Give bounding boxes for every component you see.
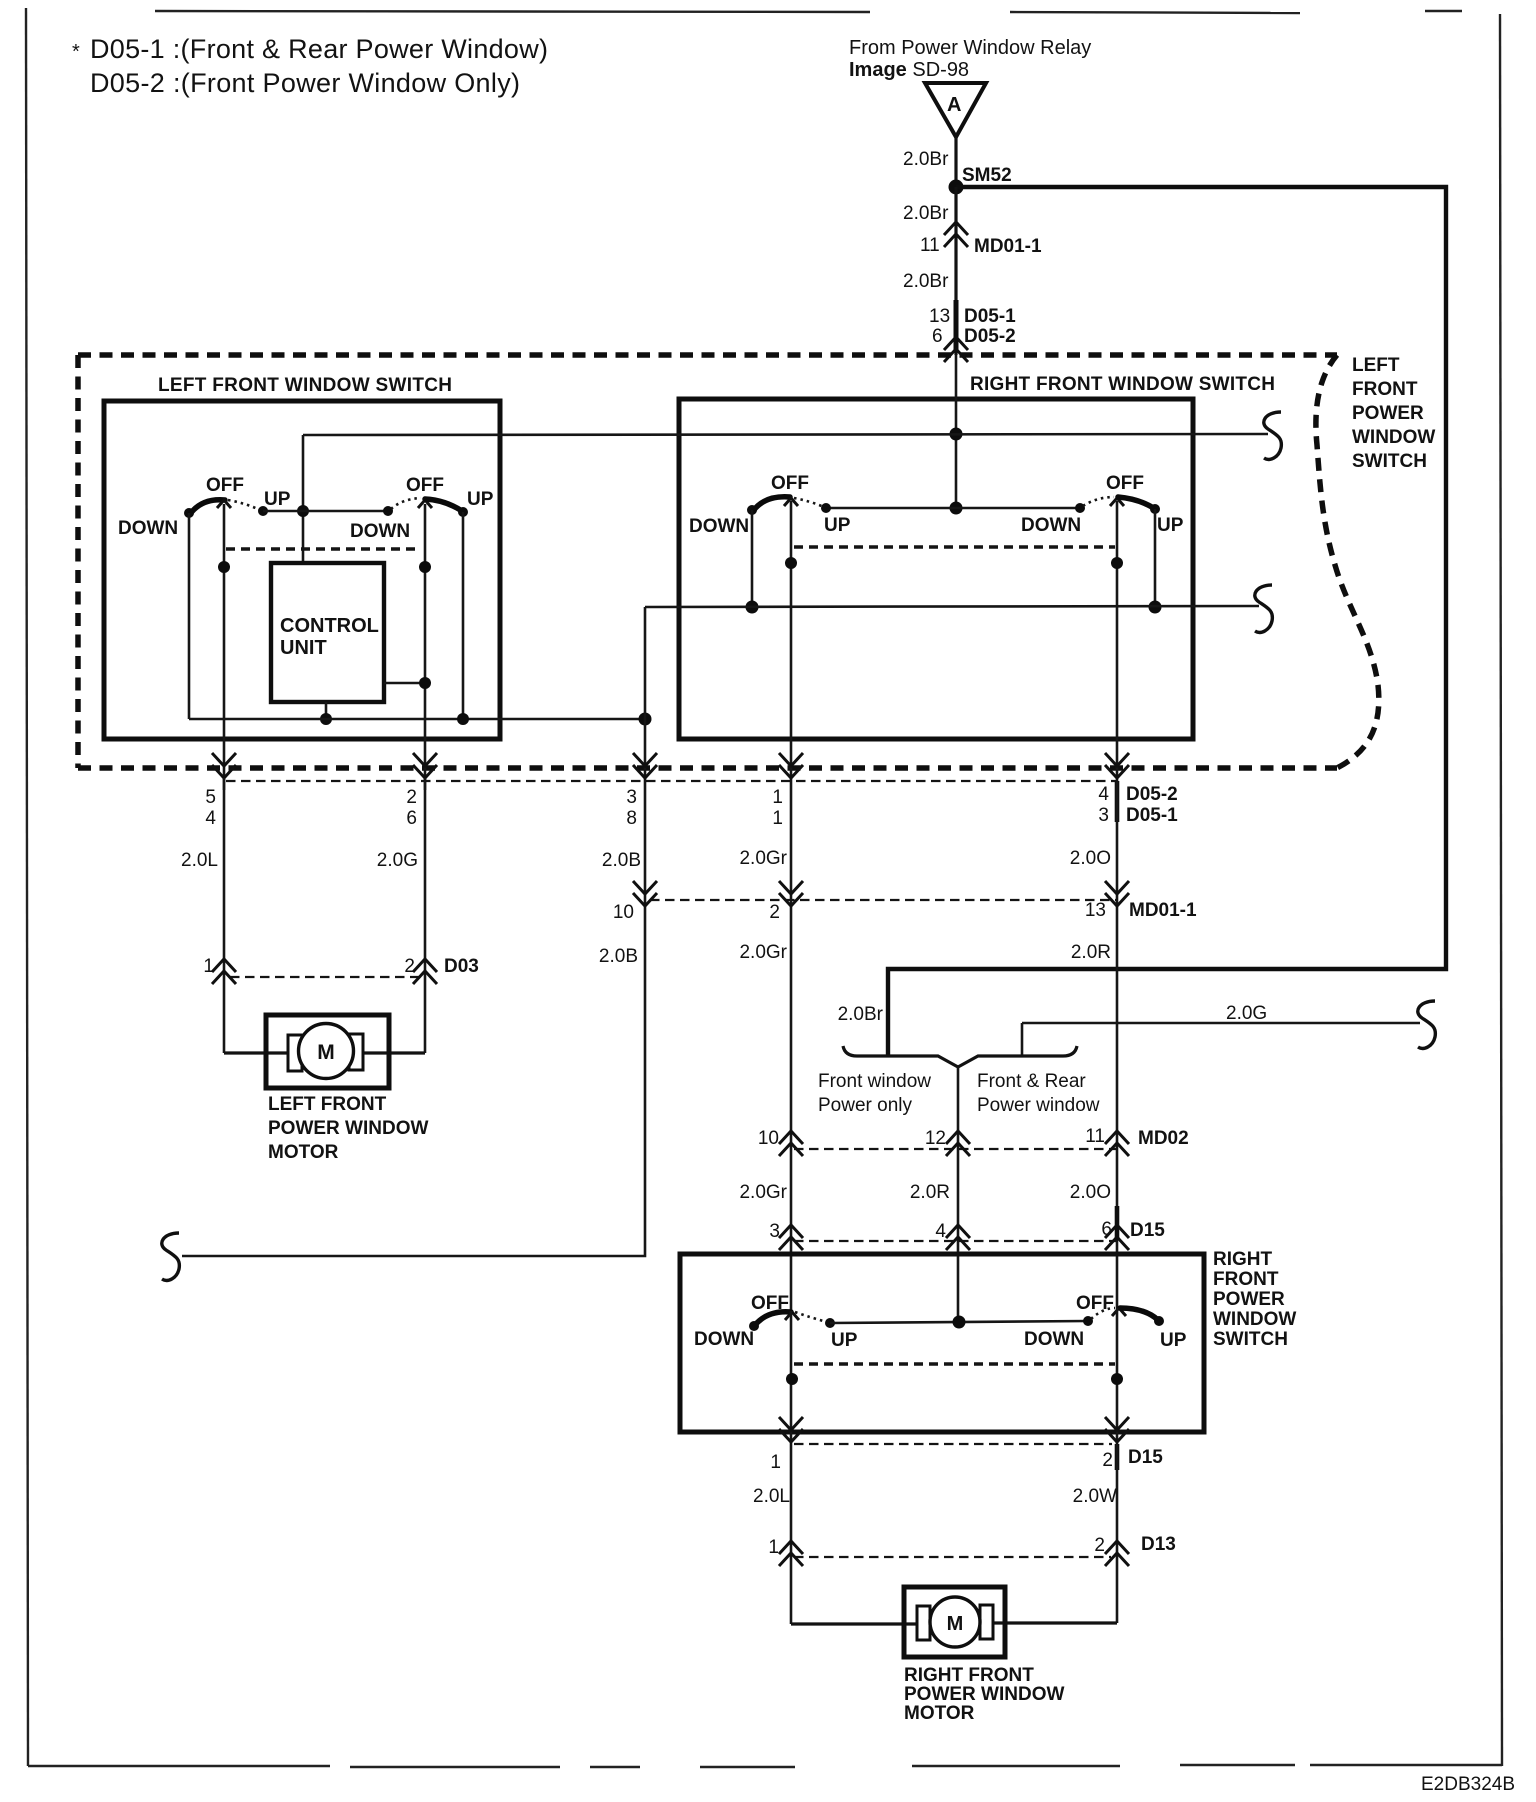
switch S3 dotted throw (OFF to UP) — [794, 498, 824, 507]
wire common horizontal S3 UP to S4 DOWN — [826, 507, 1080, 510]
switch S2 blade (OFF to UP) — [425, 499, 462, 511]
connector MD02 row dashed line — [794, 1148, 1118, 1150]
svg-text:D05-1: D05-1 — [1126, 805, 1178, 826]
svg-text:4: 4 — [1098, 784, 1109, 805]
svg-text:E2DB324B: E2DB324B — [1421, 1774, 1515, 1795]
node dot on S1 wiper wire — [218, 561, 230, 573]
switch S4 wiper arrow — [1110, 498, 1124, 506]
wire S1 wiper down to motor row — [223, 504, 226, 1053]
node center junction dot (pin 4 wire) — [953, 1316, 966, 1329]
chevron MD01-1 pin 10 — [633, 881, 657, 906]
wire 2.0O column down to lower box — [1116, 781, 1119, 1308]
wire from long wire down to switch common junction and control unit — [302, 435, 305, 563]
svg-text:UP: UP — [1160, 1330, 1187, 1351]
wire pin2 down continuation — [424, 778, 427, 790]
chevron exit pin 1 (D15 lower) — [779, 1417, 803, 1442]
switch S1 dotted throw (OFF to UP) — [228, 500, 260, 510]
svg-text:2.0G: 2.0G — [1226, 1003, 1267, 1024]
break squiggle at right end of long wire 2 — [1255, 585, 1273, 632]
svg-text:D05-1: D05-1 — [964, 306, 1016, 327]
connector MD01-1 row dashed line — [650, 899, 1118, 901]
svg-text:UP: UP — [467, 489, 494, 510]
svg-text:OFF: OFF — [406, 475, 444, 496]
svg-text:POWER WINDOW: POWER WINDOW — [268, 1118, 428, 1139]
svg-text:M: M — [947, 1613, 964, 1635]
wire feed into box down to bus junction — [955, 355, 958, 508]
chevron D15 pin 6 — [1105, 1225, 1129, 1250]
svg-text:2.0R: 2.0R — [910, 1182, 950, 1203]
chevron MD02 pin 10 — [779, 1131, 803, 1156]
svg-text:From Power Window Relay: From Power Window Relay — [849, 37, 1091, 59]
chevron D03 pin 2 — [413, 959, 437, 984]
wire 2.0B riser down to left squiggle wire — [182, 781, 645, 1256]
connector D15 lower row dashed line — [794, 1443, 1112, 1445]
dashed assembly box bottom edge — [78, 765, 1337, 771]
svg-text:SM52: SM52 — [962, 165, 1012, 186]
svg-text:UP: UP — [831, 1330, 858, 1351]
wire SM52 feed: right, down right side, left, down to bracket — [888, 187, 1446, 1056]
svg-text:MD02: MD02 — [1138, 1128, 1189, 1149]
node dot CU right pin — [419, 677, 431, 689]
chevron exit pin 4/3 — [1105, 753, 1129, 778]
node dot S3 DOWN on long wire 2 — [746, 601, 759, 614]
svg-text:8: 8 — [626, 808, 637, 829]
svg-text:10: 10 — [758, 1128, 779, 1149]
switch S2 DOWN contact dot — [383, 506, 393, 516]
wire S2 wiper down to motor row — [424, 504, 427, 1053]
connector bar D05 bottom — [1115, 781, 1120, 822]
svg-text:10: 10 — [613, 902, 634, 923]
switch S1 blade (DOWN to OFF) — [190, 500, 225, 514]
switch S2 wiper arrow — [418, 500, 432, 508]
break squiggle at left end — [162, 1233, 180, 1280]
svg-text:D13: D13 — [1141, 1534, 1176, 1555]
svg-text:POWER: POWER — [1352, 403, 1424, 424]
svg-text:OFF: OFF — [771, 473, 809, 494]
svg-text:OFF: OFF — [1076, 1293, 1114, 1314]
svg-text:POWER: POWER — [1213, 1289, 1285, 1310]
svg-text:D05-2: D05-2 — [1126, 784, 1178, 805]
svg-text:DOWN: DOWN — [1021, 515, 1081, 536]
svg-text:2.0R: 2.0R — [1071, 942, 1111, 963]
wire S3 wiper down (pin 1) — [790, 501, 793, 781]
switch S2 UP contact dot — [458, 507, 468, 517]
svg-text:WINDOW: WINDOW — [1352, 427, 1435, 448]
switch S4 UP contact dot — [1150, 504, 1160, 514]
dashed assembly box left edge — [75, 355, 81, 768]
page border top segments — [155, 11, 870, 12]
option bracket right (Front and Rear Power window) — [958, 1046, 1077, 1067]
right motor right brush — [980, 1605, 993, 1639]
long wire 1 across assembly — [303, 434, 1268, 435]
switch S3 wiper arrow — [784, 498, 798, 506]
chevron entering dashed switch assembly — [944, 337, 968, 362]
svg-text:2.0W: 2.0W — [1073, 1486, 1117, 1507]
wire S6 wiper down to exit — [1116, 1308, 1119, 1444]
switch S1 UP contact dot — [258, 506, 268, 516]
node junction on UP wire — [297, 505, 309, 517]
svg-text:UP: UP — [824, 515, 851, 536]
svg-text:2.0Gr: 2.0Gr — [739, 1182, 787, 1203]
node dot on long wire 1 — [950, 428, 963, 441]
svg-text:2.0L: 2.0L — [753, 1486, 790, 1507]
svg-text:MD01-1: MD01-1 — [1129, 900, 1197, 921]
node dot on S4 wiper wire — [1111, 557, 1123, 569]
page border left — [26, 8, 28, 1766]
node dot on S6 wiper wire — [1111, 1373, 1123, 1385]
switch S5 blade (pivot to DOWN) — [755, 1312, 791, 1325]
chevron D15 pin 3 — [779, 1225, 803, 1250]
node dot on S3 wiper wire — [785, 557, 797, 569]
svg-text:1: 1 — [772, 787, 783, 808]
switch S4 dotted throw (DOWN to OFF) — [1083, 497, 1114, 506]
svg-text:D15: D15 — [1130, 1220, 1165, 1241]
switch S5 dotted throw (pivot to UP) — [795, 1312, 827, 1322]
svg-text:Front window: Front window — [818, 1071, 931, 1092]
wire S4 wiper down (pin 4/3) — [1116, 501, 1119, 781]
svg-text:6: 6 — [932, 326, 943, 347]
svg-text:4: 4 — [205, 808, 216, 829]
chevron D03 pin 1 — [212, 959, 236, 984]
wire triangle to SM52 — [954, 137, 957, 187]
svg-text:RIGHT FRONT WINDOW SWITCH: RIGHT FRONT WINDOW SWITCH — [970, 374, 1275, 395]
svg-text:3: 3 — [769, 1221, 780, 1242]
chevron exit pin 2/6 — [413, 753, 437, 778]
node junction dot bus to pin 3/8 riser — [639, 713, 652, 726]
page border right — [1500, 14, 1502, 1766]
svg-text:2.0B: 2.0B — [602, 850, 641, 871]
wire S3 DOWN contact to long wire 2 — [751, 510, 754, 607]
motor left brush — [288, 1035, 302, 1071]
svg-text:FRONT: FRONT — [1213, 1269, 1279, 1290]
connector bar D15 top — [1115, 1206, 1120, 1240]
svg-text:*: * — [72, 41, 80, 63]
svg-text:2.0Gr: 2.0Gr — [739, 942, 787, 963]
svg-text:DOWN: DOWN — [694, 1329, 754, 1350]
wire junction to S2 DOWN contact — [303, 510, 388, 513]
switch S5 DOWN contact dot — [749, 1321, 759, 1331]
switch S6 UP contact dot — [1154, 1316, 1164, 1326]
svg-text:OFF: OFF — [751, 1293, 789, 1314]
chevron exit pin 3/8 — [633, 753, 657, 778]
wire S5 UP to center junction and S6 DOWN — [830, 1321, 1088, 1323]
svg-text:6: 6 — [1101, 1219, 1112, 1240]
wire pin 3/8 drop from bus — [644, 719, 647, 781]
svg-text:13: 13 — [1085, 900, 1106, 921]
svg-text:5: 5 — [205, 787, 216, 808]
wire control unit right pin to S2 wiper wire — [384, 682, 425, 685]
connector D05 row dashed line — [226, 780, 1118, 782]
switch S4 blade (OFF to UP) — [1118, 497, 1155, 509]
chevron exit pin 1/1 — [779, 753, 803, 778]
svg-text:MOTOR: MOTOR — [904, 1703, 975, 1724]
wire 2.0W drop to D13 — [1116, 1444, 1119, 1623]
wire pin2 to right motor right terminal — [992, 1621, 1117, 1624]
svg-text:D03: D03 — [444, 956, 479, 977]
svg-text:2: 2 — [1102, 1450, 1113, 1471]
connector bar D15 lower — [1115, 1444, 1120, 1470]
wire control unit bottom pin — [325, 702, 328, 719]
svg-text:4: 4 — [935, 1221, 946, 1242]
svg-text:M: M — [317, 1041, 335, 1064]
svg-text:CONTROL: CONTROL — [280, 615, 379, 637]
node dot S2 UP leg on bus — [457, 713, 469, 725]
svg-text:Front & Rear: Front & Rear — [977, 1071, 1086, 1092]
svg-text:POWER WINDOW: POWER WINDOW — [904, 1684, 1064, 1705]
node dot S4 UP on long wire 2 — [1149, 601, 1162, 614]
svg-text:13: 13 — [929, 306, 950, 327]
motor armature circle — [299, 1024, 354, 1079]
svg-text:UNIT: UNIT — [280, 637, 327, 659]
left front window switch box — [104, 401, 500, 739]
connector D03 row dashed line — [230, 976, 420, 978]
switch S2 dotted throw (DOWN to OFF) — [391, 498, 421, 509]
svg-text:2.0G: 2.0G — [377, 850, 418, 871]
svg-text:FRONT: FRONT — [1352, 379, 1418, 400]
dashed assembly box curved right boundary — [1316, 355, 1379, 768]
svg-text:DOWN: DOWN — [1024, 1329, 1084, 1350]
right motor armature circle — [930, 1597, 980, 1647]
switch S3 UP contact dot — [821, 503, 831, 513]
svg-text:UP: UP — [264, 489, 291, 510]
svg-text:LEFT: LEFT — [1352, 355, 1400, 376]
switch S1 wiper arrow — [217, 500, 231, 508]
svg-text:DOWN: DOWN — [118, 518, 178, 539]
svg-text:SWITCH: SWITCH — [1352, 451, 1427, 472]
svg-text:RIGHT: RIGHT — [1213, 1249, 1273, 1270]
svg-text:6: 6 — [406, 808, 417, 829]
dashed assembly box top edge — [78, 352, 1337, 358]
connector D13 row dashed line — [794, 1556, 1111, 1558]
node dot CU bottom pin on ground bus — [320, 713, 332, 725]
svg-text:2.0O: 2.0O — [1070, 1182, 1111, 1203]
svg-text:1: 1 — [772, 808, 783, 829]
wire inner bottom bus — [189, 718, 645, 721]
wire 2.0G from squiggle to bracket — [1022, 1022, 1420, 1025]
wire riser from bus up to long wire 2 corner — [644, 607, 647, 719]
connector D15 row dashed line — [794, 1240, 1118, 1242]
off-page connector triangle A — [925, 83, 986, 137]
chevron exit pin 2 (D15 lower) — [1105, 1417, 1129, 1442]
svg-text:DOWN: DOWN — [689, 516, 749, 537]
svg-text:2.0Br: 2.0Br — [903, 149, 949, 170]
svg-text:1: 1 — [770, 1452, 781, 1473]
switch S3 DOWN contact dot — [747, 505, 757, 515]
svg-text:SWITCH: SWITCH — [1213, 1329, 1288, 1350]
svg-text:2: 2 — [406, 787, 417, 808]
wire pin1 to motor left terminal — [224, 1051, 292, 1054]
wire S1 UP contact to junction — [263, 510, 303, 513]
right front window switch box — [679, 399, 1193, 739]
wire SM52 to MD01-1 — [954, 187, 957, 355]
svg-text:3: 3 — [626, 787, 637, 808]
svg-text:LEFT FRONT WINDOW SWITCH: LEFT FRONT WINDOW SWITCH — [158, 375, 452, 396]
chevron MD02 pin 11 — [1105, 1131, 1129, 1156]
svg-text:2: 2 — [1094, 1535, 1105, 1556]
svg-text:Power window: Power window — [977, 1095, 1100, 1116]
svg-text:2.0Br: 2.0Br — [903, 271, 949, 292]
svg-text:2.0Gr: 2.0Gr — [739, 848, 787, 869]
svg-text:MOTOR: MOTOR — [268, 1142, 339, 1163]
chevron MD01-1 pin 2 — [779, 881, 803, 906]
wire bracket junction down to MD02 pin 12 — [957, 1067, 960, 1322]
wire pin2 to motor right terminal — [360, 1051, 425, 1054]
right front power window switch box — [680, 1254, 1204, 1432]
svg-text:1: 1 — [203, 956, 214, 977]
node dot on S5 wiper wire — [786, 1373, 798, 1385]
switch S3 blade (DOWN to OFF) — [753, 497, 790, 511]
chevron D15 pin 4 — [946, 1225, 970, 1250]
switch S5 wiper arrow — [785, 1312, 799, 1320]
switch S6 blade (pivot to UP) — [1120, 1308, 1158, 1320]
svg-text:2.0Br: 2.0Br — [838, 1004, 884, 1025]
svg-text:MD01-1: MD01-1 — [974, 236, 1042, 257]
connector bar D05 at top — [954, 300, 959, 352]
right front power window motor box — [904, 1587, 1005, 1657]
svg-text:Power only: Power only — [818, 1095, 912, 1116]
switch S6 dotted throw (DOWN to pivot) — [1091, 1308, 1115, 1319]
break squiggle at right end of long wire 1 — [1264, 412, 1282, 459]
switch S4 DOWN contact dot — [1075, 503, 1085, 513]
mechanical link dashed line S3-S4 — [794, 545, 1115, 548]
long wire 2 across assembly — [645, 606, 1259, 607]
chevron MD02 pin 12 — [946, 1131, 970, 1156]
svg-text:OFF: OFF — [206, 475, 244, 496]
mechanical link dashed line S1-S2 — [226, 547, 420, 550]
svg-text:Image SD-98: Image SD-98 — [849, 59, 969, 81]
control unit box — [271, 563, 384, 702]
svg-text:RIGHT FRONT: RIGHT FRONT — [904, 1665, 1034, 1686]
page border bottom segments — [28, 1765, 330, 1767]
wire pin1 to right motor left terminal — [791, 1622, 920, 1625]
svg-text:OFF: OFF — [1106, 473, 1144, 494]
svg-text:12: 12 — [925, 1128, 946, 1149]
node dot on S2 wiper wire — [419, 561, 431, 573]
wire S1 DOWN contact down leg — [188, 513, 191, 719]
chevron MD01-1 pin 13 — [1105, 881, 1129, 906]
switch S6 wiper arrow — [1112, 1308, 1126, 1316]
svg-text:2.0L: 2.0L — [181, 850, 218, 871]
wire S4 UP contact to long wire 2 — [1154, 509, 1157, 607]
connector MD01-1 pin 11 chevron — [944, 222, 968, 247]
svg-text:2.0O: 2.0O — [1070, 848, 1111, 869]
svg-text:DOWN: DOWN — [350, 521, 410, 542]
node SM52 junction dot — [949, 180, 964, 195]
node dot on switch common wire — [950, 502, 963, 515]
break squiggle 2.0G right end — [1418, 1001, 1436, 1048]
wire 2.0Gr column down to MD02 — [790, 781, 793, 1311]
svg-text:2.0Br: 2.0Br — [903, 203, 949, 224]
svg-text:11: 11 — [1085, 1126, 1105, 1147]
chevron D13 pin 2 — [1105, 1541, 1129, 1566]
svg-text:D05-1 :(Front & Rear Power Win: D05-1 :(Front & Rear Power Window) — [90, 34, 548, 64]
svg-text:WINDOW: WINDOW — [1213, 1309, 1296, 1330]
wire pin5 down continuation — [223, 778, 226, 790]
svg-text:D05-2 :(Front Power Window Onl: D05-2 :(Front Power Window Only) — [90, 68, 520, 98]
svg-text:2: 2 — [404, 956, 415, 977]
chevron exit pin 5/4 — [212, 753, 236, 778]
wire 2.0L drop to D13 — [790, 1444, 793, 1624]
switch S5 UP contact dot — [825, 1318, 835, 1328]
svg-text:D15: D15 — [1128, 1447, 1163, 1468]
wire S2 UP contact down leg — [462, 512, 465, 719]
chevron D13 pin 1 — [779, 1541, 803, 1566]
svg-text:2: 2 — [769, 902, 780, 923]
svg-text:LEFT FRONT: LEFT FRONT — [268, 1094, 387, 1115]
right motor left brush — [917, 1606, 930, 1640]
svg-text:11: 11 — [920, 235, 940, 256]
svg-text:3: 3 — [1098, 805, 1109, 826]
motor right brush — [349, 1034, 363, 1070]
mechanical link dashed line S5-S6 — [794, 1362, 1115, 1365]
switch S6 DOWN contact dot — [1083, 1316, 1093, 1326]
svg-text:2.0B: 2.0B — [599, 946, 638, 967]
wire 2.0G drop to bracket — [1021, 1023, 1024, 1056]
svg-text:UP: UP — [1157, 515, 1184, 536]
svg-text:1: 1 — [768, 1537, 779, 1558]
switch S1 DOWN contact dot — [184, 508, 194, 518]
svg-text:A: A — [947, 94, 961, 116]
left front power window motor box — [266, 1015, 389, 1088]
option bracket left (Front window Power only) — [843, 1046, 958, 1067]
wire S5 wiper down to exit — [790, 1311, 793, 1444]
svg-text:D05-2: D05-2 — [964, 326, 1016, 347]
